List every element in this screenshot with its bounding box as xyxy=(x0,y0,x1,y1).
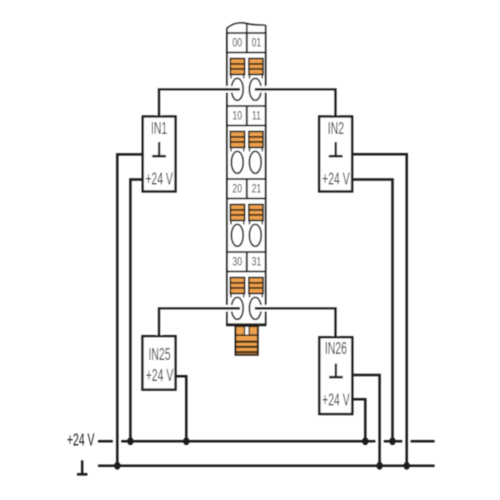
ground symbol in IN1 xyxy=(152,142,166,156)
wire from pin 31 to IN26 xyxy=(255,308,336,338)
svg-text:21: 21 xyxy=(252,183,262,196)
wire IN2 +24V to +24V bus xyxy=(352,180,393,442)
pin label row 30/31 xyxy=(227,252,266,272)
module top cap xyxy=(227,23,266,33)
junction dot IN2 +24V xyxy=(389,437,395,445)
contact hole pair row 3 (pins 20/21) xyxy=(231,224,261,246)
svg-text:+24 V: +24 V xyxy=(322,391,350,411)
svg-text:20: 20 xyxy=(232,183,242,196)
junction dot IN2 ground xyxy=(404,462,410,470)
pin label row 10/11 xyxy=(227,106,266,126)
0V ground bus xyxy=(98,465,435,468)
wire from pin 30 to IN25 xyxy=(159,308,240,337)
+24V supply bus xyxy=(98,440,435,443)
ground symbol in IN2 xyxy=(329,142,343,156)
sensor box IN2 xyxy=(319,117,352,192)
svg-text:30: 30 xyxy=(232,256,242,269)
wire IN1 +24V to +24V bus xyxy=(130,180,143,442)
svg-text:IN25: IN25 xyxy=(148,345,170,365)
ground bus label symbol xyxy=(77,460,87,474)
sensor box IN1 xyxy=(143,117,176,192)
wire IN25 +24V to +24V bus xyxy=(176,376,187,441)
sensor box IN26 xyxy=(319,337,352,414)
svg-text:+24 V: +24 V xyxy=(145,170,173,190)
junction dot IN1 +24V xyxy=(127,437,133,445)
contact hole pair row 4 (pins 30/31) xyxy=(231,297,261,319)
ground symbol in IN26 xyxy=(329,364,343,378)
junction dot IN26 +24V xyxy=(362,437,368,445)
contact hole pair row 2 (pins 10/11) xyxy=(231,151,261,173)
junction dot IN1 ground xyxy=(114,462,120,470)
svg-text:01: 01 xyxy=(252,37,262,50)
svg-text:IN2: IN2 xyxy=(328,119,344,139)
wire IN1 ground to 0V bus xyxy=(117,154,143,465)
wire from pin 00 to IN1 xyxy=(159,89,240,117)
spring clamp pair row 4 xyxy=(230,278,263,298)
module bottom edge xyxy=(226,323,266,326)
wire IN2 ground to 0V bus xyxy=(352,154,407,466)
spring clamp pair row 1 xyxy=(230,59,263,79)
bus connector plug xyxy=(236,326,258,355)
spring clamp pair row 2 xyxy=(230,132,263,152)
wire from pin 01 to IN2 xyxy=(255,89,336,117)
svg-text:00: 00 xyxy=(232,37,242,50)
pin label row 00/01 xyxy=(227,33,266,53)
svg-text:IN1: IN1 xyxy=(151,119,167,139)
svg-text:10: 10 xyxy=(232,110,242,123)
svg-text:IN26: IN26 xyxy=(325,339,347,359)
wire IN26 ground to 0V bus xyxy=(352,375,379,466)
pin label row 20/21 xyxy=(227,179,266,199)
wire IN26 +24V to +24V bus xyxy=(352,399,365,441)
terminal block module body xyxy=(227,33,266,325)
junction dot IN26 ground xyxy=(376,462,382,470)
contact hole pair row 1 (pins 00/01) xyxy=(231,78,261,100)
svg-text:+24 V: +24 V xyxy=(67,431,95,451)
svg-text:31: 31 xyxy=(252,256,262,269)
svg-text:+24 V: +24 V xyxy=(322,170,350,190)
spring clamp pair row 3 xyxy=(230,205,263,225)
sensor box IN25 xyxy=(143,336,176,389)
svg-text:+24 V: +24 V xyxy=(146,366,174,386)
junction dot IN25 +24V xyxy=(183,437,189,445)
svg-text:11: 11 xyxy=(252,110,261,123)
